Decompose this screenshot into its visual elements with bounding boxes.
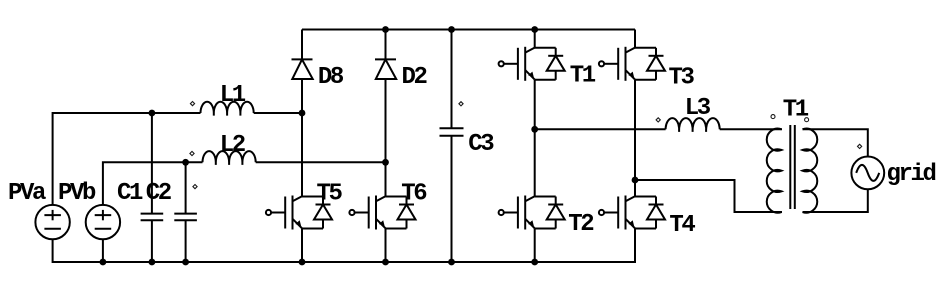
node: bottom rail / T6 <box>382 259 389 266</box>
wire: bridge midpoint to L3 <box>535 128 666 130</box>
node: L1 row / C1 <box>149 110 156 117</box>
wire: PVa bottom lead <box>53 239 103 262</box>
wire: T3/T4 midpoint to transformer primary bottom <box>635 180 782 212</box>
svg-text:T6: T6 <box>401 181 427 208</box>
node: bottom rail / T2 <box>531 259 538 266</box>
wire: D2/T6 branch vertical <box>385 30 387 60</box>
svg-text:T5: T5 <box>317 181 343 208</box>
IGBT T1 <box>499 47 596 90</box>
wire: T3/T4 leg vertical <box>634 30 636 48</box>
wire: transformer secondary top to grid <box>803 129 868 156</box>
svg-text:D8: D8 <box>318 64 344 91</box>
capacitor C2 <box>146 180 197 220</box>
diode D8 <box>292 59 344 91</box>
svg-text:L3: L3 <box>685 95 711 122</box>
svg-text:PVb: PVb <box>58 180 96 207</box>
wire: L2 right segment to D2/T6 branch <box>256 161 386 163</box>
node: bottom rail / PVb <box>100 259 107 266</box>
IGBT T6 <box>349 181 427 230</box>
wire: T1/T2 leg vertical <box>534 30 536 48</box>
IGBT T5 <box>266 181 343 230</box>
inductor L1 <box>190 82 253 116</box>
wire: L1 right segment to D8/T5 branch <box>254 112 302 114</box>
PV source PVa <box>8 180 70 239</box>
IGBT T3 <box>599 47 695 92</box>
svg-text:T3: T3 <box>669 64 695 91</box>
node: top rail / T1 <box>531 26 538 33</box>
wire: PVb vertical + L2 row left segment <box>103 162 203 205</box>
AC source grid <box>851 144 935 189</box>
svg-text:C2: C2 <box>146 180 171 207</box>
node: L2 / D2-T6 branch <box>382 159 389 166</box>
wire: top DC rail <box>302 29 635 31</box>
inductor L3 <box>656 95 720 132</box>
wire: C1 branch vertical <box>151 113 153 214</box>
wire: D8/T5 branch vertical <box>301 30 303 60</box>
wire: PVa vertical + L1 row left segment <box>53 113 201 205</box>
IGBT T2 <box>499 196 594 239</box>
svg-text:PVa: PVa <box>8 180 46 207</box>
svg-text:T4: T4 <box>669 212 695 239</box>
diode D2 <box>375 59 427 91</box>
svg-text:T2: T2 <box>568 211 593 238</box>
wire: C3 branch vertical <box>451 30 453 129</box>
svg-text:D2: D2 <box>402 64 427 91</box>
capacitor C3 <box>440 102 495 158</box>
node: T1-T2 midpoint <box>531 126 538 133</box>
node: L1 / D8-T5 branch <box>299 110 306 117</box>
wire: PVb bottom lead <box>102 239 104 262</box>
inductor L2 <box>190 132 256 165</box>
svg-text:C3: C3 <box>468 131 494 158</box>
node: T3-T4 midpoint <box>632 177 639 184</box>
svg-text:T1: T1 <box>570 63 596 90</box>
node: top rail / D2 <box>382 26 389 33</box>
node: bottom rail / C1 <box>149 259 156 266</box>
svg-text:L1: L1 <box>220 82 246 109</box>
node: bottom rail / C3 <box>448 259 455 266</box>
node: top rail / C3 <box>448 26 455 33</box>
capacitor C1 <box>117 180 163 220</box>
wire: bottom rail <box>103 229 635 263</box>
node: L2 row / C2 <box>182 159 189 166</box>
wire: transformer secondary bottom to grid <box>803 189 868 212</box>
IGBT T4 <box>599 196 696 240</box>
transformer T1 <box>767 97 818 213</box>
node: bottom rail / T5 <box>299 259 306 266</box>
svg-text:grid: grid <box>887 161 936 188</box>
svg-text:C1: C1 <box>117 180 143 207</box>
node: bottom rail / C2 <box>182 259 189 266</box>
PV source PVb <box>58 180 120 239</box>
svg-text:L2: L2 <box>220 132 245 159</box>
wire: L3 to transformer primary top <box>720 128 782 130</box>
wire: C2 branch vertical <box>185 162 187 213</box>
